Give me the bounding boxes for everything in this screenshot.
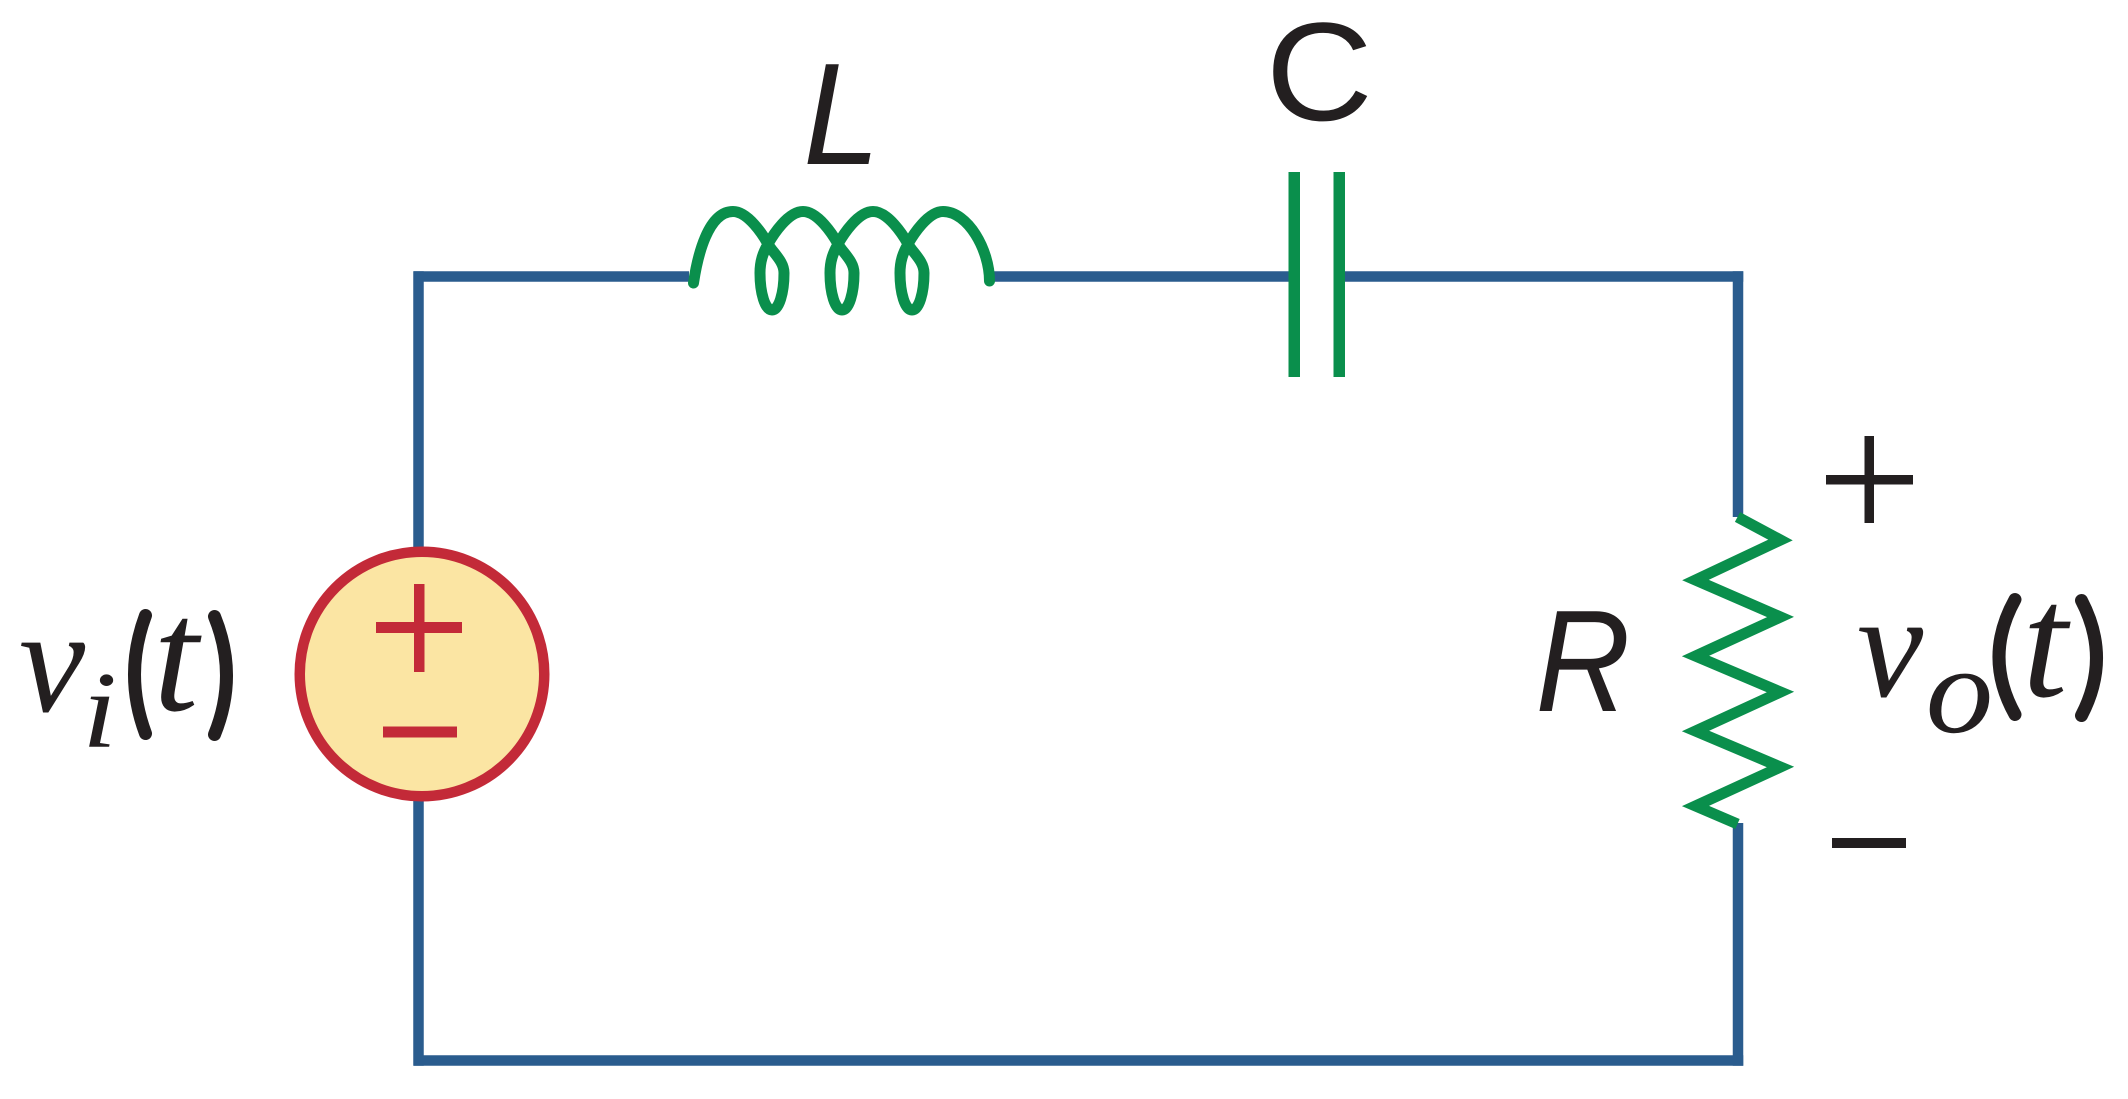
svg-text:C: C [1266,0,1373,150]
svg-text:v: v [19,579,86,744]
wire bottom [414,1055,1744,1066]
svg-text:v: v [1857,564,1924,729]
label vi(t): open paren [135,616,146,734]
inductor L coil [694,212,990,311]
output minus sign [1832,838,1906,848]
svg-text:t: t [153,567,202,746]
wire top-left segment [414,271,689,282]
output plus sign [1826,475,1913,485]
capacitor C left plate [1289,172,1301,377]
svg-text:R: R [1536,581,1631,742]
wire left vertical [413,271,424,1066]
wire between inductor and capacitor [993,271,1289,282]
resistor R zigzag [1696,517,1781,824]
svg-text:L: L [803,34,880,196]
voltage source vi circle [300,552,545,797]
wire right vertical upper [1733,271,1744,517]
wire between capacitor and top-right corner [1344,271,1743,282]
label vi(t): close paren [215,617,227,735]
svg-text:t: t [2022,553,2071,732]
svg-text:o: o [1926,622,1994,760]
source plus sign [376,622,462,633]
svg-text:i: i [82,650,117,771]
source minus sign [383,727,457,738]
label vo(t): close paren [2082,601,2097,716]
label vo(t): open paren [1999,600,2015,715]
capacitor C right plate [1334,172,1346,377]
wire right vertical lower [1733,823,1744,1066]
